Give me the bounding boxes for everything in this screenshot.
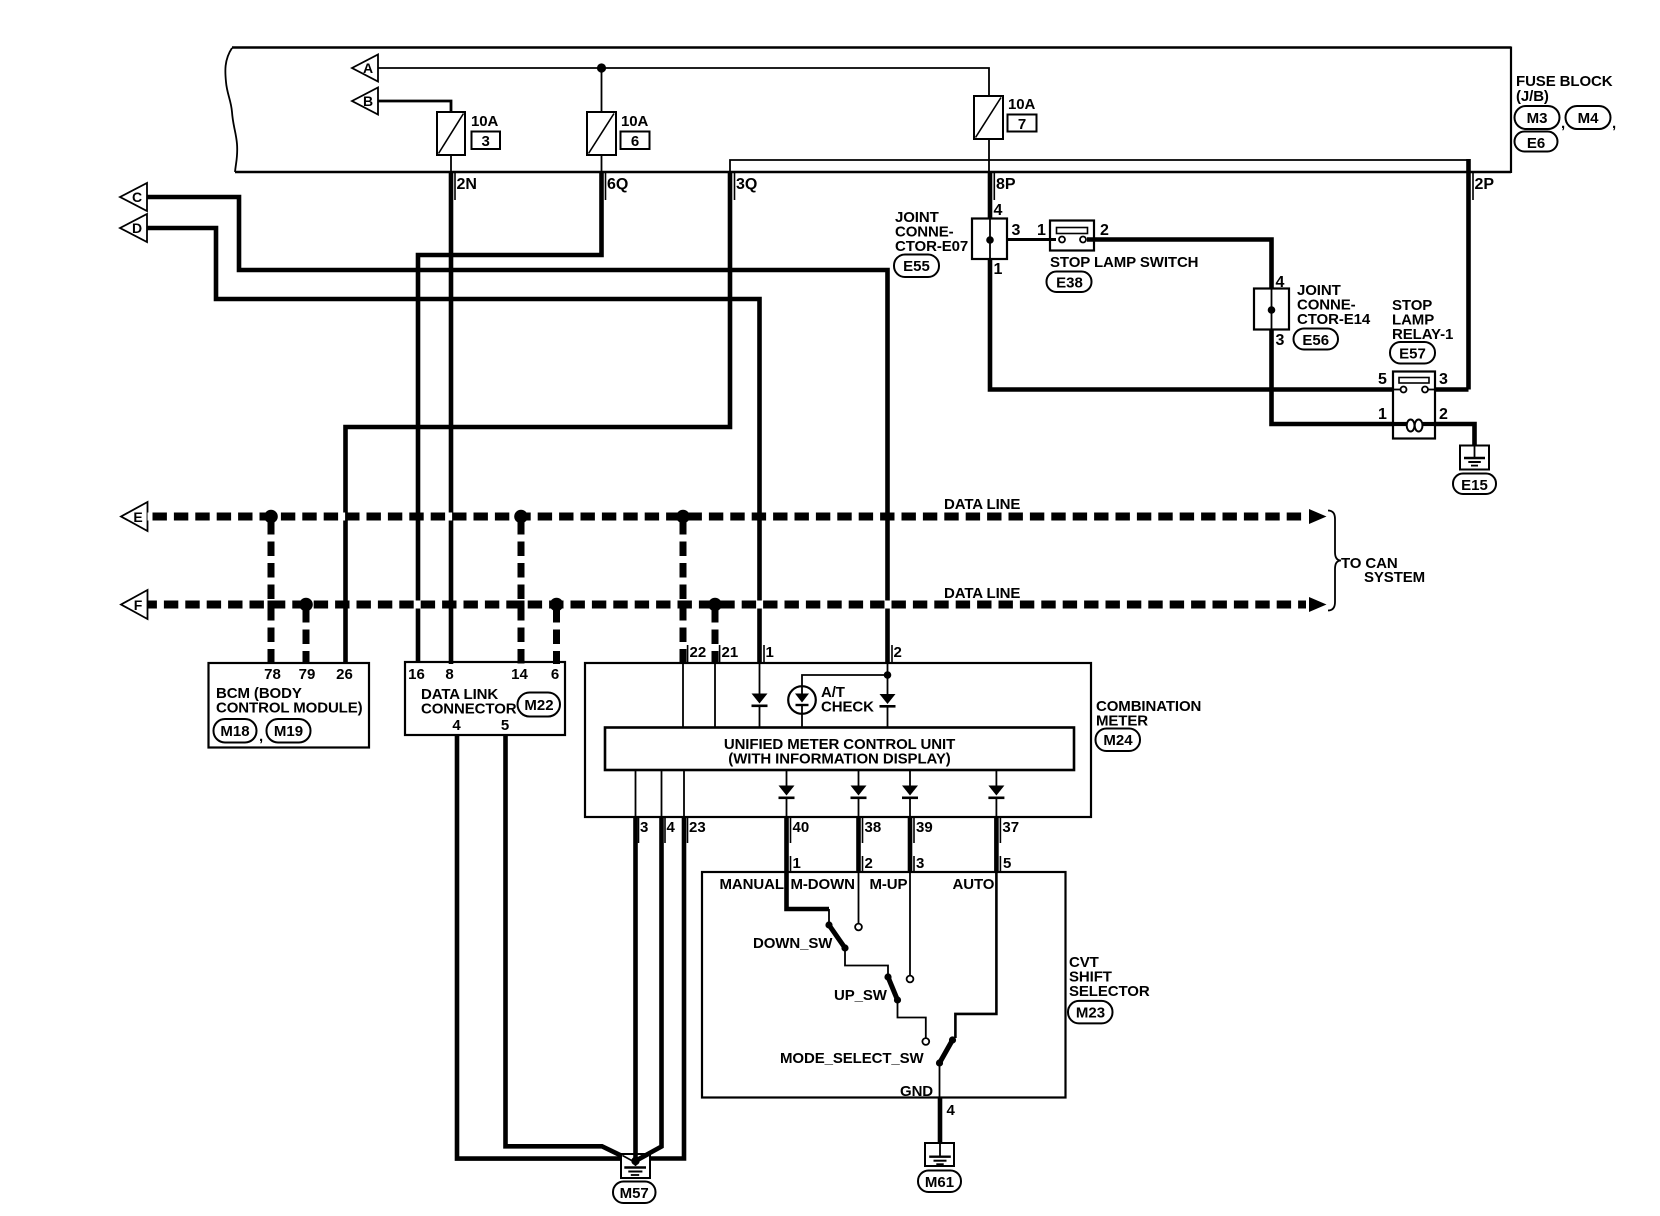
svg-text:DATA LINE: DATA LINE	[944, 585, 1020, 602]
connector oval E15	[1453, 474, 1496, 495]
wire relay pin2 to ground E15	[1435, 424, 1475, 446]
svg-text:1: 1	[793, 855, 801, 872]
tick pin 1	[763, 645, 765, 663]
BCM (body control module) box	[209, 663, 370, 748]
diode at meter pin 1	[752, 694, 896, 708]
svg-text:RELAY-1: RELAY-1	[1392, 326, 1453, 343]
wire 2P to stop lamp relay pin 3	[1466, 159, 1471, 390]
connector oval M23	[1068, 1001, 1113, 1024]
wire MODE_SELECT_SW to GND pin	[939, 1065, 941, 1098]
connector oval E57	[1390, 342, 1435, 364]
svg-text:M19: M19	[274, 723, 303, 740]
connector oval E56	[1294, 329, 1339, 350]
svg-text:5: 5	[501, 717, 509, 734]
unified meter control unit box	[605, 728, 1074, 771]
svg-text:GND: GND	[900, 1083, 933, 1100]
wire meter 3 to ground M57	[633, 817, 638, 1160]
wire crossing patch 683/F	[680, 601, 687, 609]
junction node F/21	[708, 598, 722, 612]
tick pin 40	[790, 818, 792, 843]
brace to CAN system	[1328, 511, 1341, 611]
tick CVT pin 5	[999, 856, 1001, 872]
wire data line E	[148, 513, 1307, 521]
diode at meter pin 38	[851, 786, 867, 796]
wire E07 pin3 to stop lamp switch pin 1	[1007, 238, 1056, 241]
wire branch to A/T check	[802, 675, 888, 687]
svg-text:4: 4	[1276, 274, 1285, 291]
pin tick 6Q	[605, 173, 607, 200]
tick pin 4	[664, 818, 666, 843]
svg-text:8P: 8P	[996, 176, 1016, 193]
svg-text:M22: M22	[524, 697, 553, 714]
data link connector box	[405, 662, 565, 735]
tick CVT pin 1	[790, 856, 792, 872]
wire meter 4 to ground M57	[637, 817, 662, 1160]
arrow F (from sheet)	[121, 590, 148, 619]
wire E07 pin1 to relay pin 5	[990, 259, 1393, 390]
svg-text:M-DOWN: M-DOWN	[791, 876, 855, 893]
UP_SW contact	[907, 976, 914, 983]
svg-text:E55: E55	[903, 258, 930, 275]
svg-text:37: 37	[1002, 819, 1019, 836]
svg-text:CHECK: CHECK	[821, 699, 874, 716]
wire data line F	[148, 601, 1307, 609]
junction node F/6	[550, 598, 564, 612]
fuse block right border	[1510, 47, 1512, 174]
connector oval M19	[267, 719, 311, 743]
svg-text:M23: M23	[1076, 1005, 1105, 1022]
svg-text:M4: M4	[1578, 110, 1599, 127]
pin tick 2P	[1472, 173, 1474, 200]
svg-text:39: 39	[916, 819, 933, 836]
junction node F/79	[299, 598, 313, 612]
svg-text:16: 16	[408, 666, 425, 683]
junction node on wire A	[597, 63, 606, 72]
wire relay pin3 to 2P	[1435, 387, 1469, 392]
svg-text:3Q: 3Q	[736, 176, 757, 193]
tick pin 39	[913, 818, 915, 843]
switch MODE_SELECT_SW blade	[940, 1040, 953, 1063]
svg-text:DOWN_SW: DOWN_SW	[753, 935, 833, 952]
connector oval M57	[613, 1182, 656, 1204]
svg-text:MODE_SELECT_SW: MODE_SELECT_SW	[780, 1050, 925, 1067]
wire 3Q-2P inside fuse block	[730, 160, 1469, 172]
svg-text:3: 3	[1439, 371, 1448, 388]
svg-text:(WITH INFORMATION DISPLAY): (WITH INFORMATION DISPLAY)	[728, 751, 950, 768]
svg-text:D: D	[132, 220, 142, 236]
fuse 3 rating box	[472, 132, 501, 150]
wire meter pin4 inside	[661, 770, 663, 817]
wire meter pin37 inside	[995, 770, 997, 786]
svg-text:38: 38	[865, 819, 882, 836]
svg-text:,: ,	[1561, 115, 1565, 132]
wire E drop to meter pin 22	[680, 517, 687, 665]
wire 39 inside CVT	[909, 872, 911, 975]
fuse block bottom border	[235, 171, 1511, 173]
fuse block top border	[232, 46, 1511, 48]
connector oval M22	[518, 693, 561, 717]
pin tick 8P	[993, 173, 995, 200]
svg-text:3: 3	[916, 855, 924, 872]
wire F drop to BCM pin 79	[306, 605, 715, 665]
svg-text:4: 4	[452, 717, 461, 734]
tick pin 22	[687, 645, 689, 663]
svg-text:E: E	[133, 509, 142, 525]
svg-text:,: ,	[259, 728, 263, 745]
svg-text:1: 1	[994, 261, 1003, 278]
svg-text:SYSTEM: SYSTEM	[1364, 569, 1425, 586]
fuse 3 (10A)	[437, 112, 465, 155]
tick pin 21	[719, 645, 721, 663]
pin tick 2N	[454, 173, 456, 200]
svg-text:4: 4	[947, 1102, 956, 1119]
svg-text:F: F	[134, 597, 143, 613]
svg-text:CTOR-E07: CTOR-E07	[895, 238, 968, 255]
tick pin 2	[891, 645, 893, 663]
wire F drop to meter pin 21	[712, 605, 719, 665]
junction node E/14	[514, 510, 528, 524]
svg-text:M18: M18	[220, 723, 249, 740]
svg-text:1: 1	[766, 644, 774, 661]
svg-text:M57: M57	[620, 1185, 649, 1202]
svg-text:STOP LAMP SWITCH: STOP LAMP SWITCH	[1050, 254, 1198, 271]
stop lamp switch E38	[1050, 221, 1094, 251]
connector oval M61	[918, 1171, 961, 1193]
tick pin 23	[687, 818, 689, 843]
relay coil	[1393, 422, 1407, 426]
tick CVT pin 2	[862, 856, 864, 872]
svg-text:23: 23	[689, 819, 706, 836]
svg-text:2: 2	[1100, 222, 1109, 239]
junction node pin2/AT	[884, 671, 892, 679]
CVT shift selector box	[702, 872, 1066, 1098]
junction node E/78	[264, 510, 278, 524]
svg-text:3: 3	[1276, 332, 1285, 349]
fuse 6 (10A)	[587, 112, 616, 155]
arrow E (from sheet)	[121, 502, 148, 531]
svg-text:7: 7	[1018, 116, 1026, 133]
svg-text:3: 3	[1012, 222, 1021, 239]
wire E drop to DLC pin 14	[518, 517, 525, 665]
tick pin 38	[862, 818, 864, 843]
ground E15	[1460, 446, 1489, 470]
svg-text:METER: METER	[1096, 713, 1148, 730]
wire 37 AUTO to CVT	[994, 817, 999, 872]
wire crossing patch 271/F	[268, 601, 275, 609]
svg-text:40: 40	[793, 819, 810, 836]
switch DOWN_SW blade	[829, 925, 845, 948]
diode at meter pin 37	[988, 786, 1004, 796]
svg-text:21: 21	[722, 644, 739, 661]
ground M61	[925, 1143, 954, 1166]
wire D to combination meter pin 1	[147, 228, 760, 662]
junction node E/22	[676, 510, 690, 524]
wire 37 inside CVT to MODE_SELECT_SW	[955, 872, 996, 1038]
svg-text:E57: E57	[1399, 346, 1426, 363]
wire 39 M-UP to CVT	[908, 817, 913, 872]
wire A to fuse 7	[378, 68, 989, 96]
wire F drop to DLC pin 6	[553, 605, 560, 665]
fuse 7 (10A)	[974, 96, 1003, 139]
svg-text:E15: E15	[1461, 477, 1488, 494]
wire meter pin38 inside	[858, 770, 860, 786]
svg-text:4: 4	[667, 819, 676, 836]
wire 38 inside CVT	[858, 872, 860, 923]
svg-text:E56: E56	[1302, 332, 1329, 349]
wire crossing patch 521/F	[518, 601, 525, 609]
stop lamp relay-1 E57	[1393, 372, 1435, 439]
svg-text:78: 78	[264, 666, 281, 683]
wire 2N to data link connector pin 8	[449, 172, 454, 664]
svg-text:5: 5	[1003, 855, 1011, 872]
wire from A-line junction down to fuse 6	[601, 68, 603, 112]
wire meter pin23 inside	[683, 770, 685, 817]
svg-text:6: 6	[551, 666, 559, 683]
wire 40 inside CVT to DOWN_SW	[787, 872, 830, 909]
joint connector E14	[1254, 289, 1289, 330]
svg-text:CONTROL MODULE): CONTROL MODULE)	[216, 700, 363, 717]
A/T CHECK indicator lamp	[788, 686, 816, 714]
wire fuse7 bottom to block edge	[988, 139, 990, 172]
ground M57	[621, 1154, 650, 1178]
svg-text:22: 22	[690, 644, 707, 661]
svg-text:5: 5	[1378, 371, 1387, 388]
svg-text:E38: E38	[1056, 275, 1083, 292]
data line E arrowhead	[1309, 509, 1327, 524]
svg-text:M3: M3	[1527, 110, 1548, 127]
svg-text:(J/B): (J/B)	[1516, 88, 1549, 105]
svg-text:C: C	[132, 189, 142, 205]
svg-text:A: A	[363, 60, 373, 76]
svg-text:B: B	[363, 93, 373, 109]
svg-text:UP_SW: UP_SW	[834, 987, 888, 1004]
svg-text:M24: M24	[1103, 732, 1133, 749]
tick pin 37	[999, 818, 1001, 843]
tick CVT pin 3	[913, 856, 915, 872]
wire switch pin2 to joint connector E14	[1087, 240, 1272, 290]
svg-text:CONNECTOR: CONNECTOR	[421, 701, 517, 718]
fuse 7 rating box	[1008, 115, 1037, 132]
svg-text:,: ,	[1612, 115, 1616, 132]
wire C to combination meter pin 2	[147, 197, 888, 662]
connector oval M24	[1096, 729, 1141, 752]
svg-text:14: 14	[511, 666, 528, 683]
fuse block torn left edge	[225, 48, 237, 172]
wire 8P to joint connector E07	[988, 172, 993, 219]
wire B to fuse 3	[378, 101, 451, 112]
diode at meter pin 39	[902, 786, 918, 796]
CVT GND pin 4 wire to ground M61	[938, 1098, 943, 1145]
svg-text:2: 2	[865, 855, 873, 872]
wire pin1 inside meter	[759, 663, 761, 694]
svg-text:2N: 2N	[457, 176, 477, 193]
data line F arrowhead	[1309, 597, 1327, 612]
connector oval M18	[214, 719, 257, 743]
wire meter pin39 inside	[909, 770, 911, 786]
svg-text:26: 26	[336, 666, 353, 683]
wire meter pin3 inside	[635, 770, 637, 817]
svg-text:10A: 10A	[1008, 96, 1035, 113]
wire DOWN_SW to UP_SW	[845, 950, 888, 974]
wire 6Q to data link connector pin 16	[418, 172, 602, 662]
fuse 6 rating box	[621, 132, 650, 150]
svg-text:MANUAL: MANUAL	[720, 876, 784, 893]
wire pin22 inside meter	[682, 663, 684, 728]
joint connector E07	[972, 219, 1007, 260]
wire pin21 inside meter	[714, 663, 716, 728]
tick pin 3	[638, 818, 640, 843]
wire DLC pin 4 to ground M57	[457, 735, 621, 1159]
svg-text:10A: 10A	[471, 113, 498, 130]
svg-text:4: 4	[994, 202, 1003, 219]
svg-text:2: 2	[894, 644, 902, 661]
wire fuse3 bottom to block edge	[450, 155, 452, 172]
connector oval E38	[1047, 272, 1092, 293]
wire UP_SW to MODE_SELECT_SW contact	[898, 1002, 926, 1038]
wire pin2 inside meter	[887, 663, 889, 694]
svg-text:2: 2	[1439, 406, 1448, 423]
wire 40 MANUAL to CVT	[784, 817, 789, 872]
diode at meter pin 2	[880, 694, 896, 704]
svg-text:CTOR-E14: CTOR-E14	[1297, 311, 1371, 328]
ground M57 junction node	[631, 1157, 639, 1165]
arrow D (from sheet)	[120, 214, 147, 242]
svg-text:3: 3	[640, 819, 648, 836]
DOWN_SW contact	[855, 924, 862, 931]
switch UP_SW blade	[888, 977, 898, 1000]
svg-text:E6: E6	[1527, 135, 1545, 152]
wire 3Q to BCM pin 26	[346, 172, 731, 662]
svg-text:M61: M61	[925, 1174, 954, 1191]
svg-text:SELECTOR: SELECTOR	[1069, 983, 1150, 1000]
wire below A/T check	[801, 714, 803, 728]
MODE_SELECT_SW contact	[922, 1038, 929, 1045]
svg-text:8: 8	[445, 666, 453, 683]
wire E drop to BCM pin 78	[271, 517, 683, 665]
svg-text:10A: 10A	[621, 113, 648, 130]
svg-text:1: 1	[1378, 406, 1387, 423]
connector oval M4	[1566, 106, 1611, 129]
svg-text:DATA LINE: DATA LINE	[944, 496, 1020, 513]
svg-text:M-UP: M-UP	[870, 876, 908, 893]
svg-text:3: 3	[482, 133, 490, 150]
wire DLC pin 5 to ground M57	[506, 735, 623, 1156]
arrow A (to sheet)	[352, 55, 378, 82]
svg-text:2P: 2P	[1475, 176, 1495, 193]
svg-text:6Q: 6Q	[607, 176, 628, 193]
connector oval E55	[894, 255, 939, 278]
wire meter 23 to ground M57	[650, 817, 684, 1159]
wire meter pin40 inside	[786, 770, 788, 786]
arrow B (to sheet)	[352, 88, 378, 115]
svg-text:6: 6	[631, 133, 639, 150]
wire 38 M-DOWN to CVT	[856, 817, 861, 872]
connector oval M3	[1515, 106, 1611, 152]
svg-text:1: 1	[1037, 222, 1046, 239]
pin tick 3Q	[734, 173, 736, 200]
svg-text:79: 79	[299, 666, 316, 683]
diode at meter pin 40	[779, 786, 1005, 800]
wire fuse6 bottom to block edge	[601, 155, 603, 172]
connector oval E6	[1515, 132, 1558, 152]
svg-text:AUTO: AUTO	[953, 876, 995, 893]
arrow C (from sheet)	[120, 183, 147, 211]
combination meter box	[585, 663, 1091, 817]
wire E14 pin3 to relay pin 1	[1272, 330, 1394, 425]
